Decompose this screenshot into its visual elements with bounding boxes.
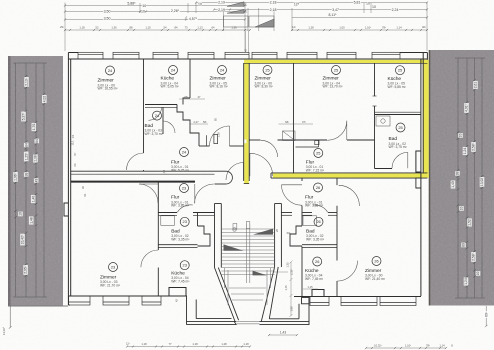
svg-text:1,18: 1,18 xyxy=(192,342,198,346)
room label Flur 26 xyxy=(305,183,324,208)
left neighbour wall band xyxy=(8,56,68,329)
svg-text:26: 26 xyxy=(316,185,320,190)
right neighbour wall band xyxy=(429,50,494,327)
svg-text:1,10¹: 1,10¹ xyxy=(365,26,371,30)
svg-text:25: 25 xyxy=(334,67,338,72)
svg-text:40¹: 40¹ xyxy=(422,25,426,29)
svg-text:1,18: 1,18 xyxy=(162,169,166,175)
svg-text:1,18: 1,18 xyxy=(141,342,147,346)
entrance bay xyxy=(187,267,310,325)
windows top xyxy=(69,52,416,305)
svg-text:1,18: 1,18 xyxy=(243,342,249,346)
chimney hatch symbols xyxy=(224,2,275,27)
svg-text:5,88⁵: 5,88⁵ xyxy=(127,1,136,5)
svg-text:2,26⁵: 2,26⁵ xyxy=(171,9,180,13)
svg-text:WF: 3,85 m²: WF: 3,85 m² xyxy=(171,204,190,208)
svg-text:WF: 21,40 m²: WF: 21,40 m² xyxy=(365,277,386,281)
svg-text:12⁵: 12⁵ xyxy=(126,342,130,346)
room label Bad 25 xyxy=(389,123,408,149)
svg-text:WF: 13,70 m²: WF: 13,70 m² xyxy=(323,85,344,89)
svg-text:78¹: 78¹ xyxy=(382,26,386,30)
svg-text:68¹: 68¹ xyxy=(285,120,289,124)
svg-text:58⁵: 58⁵ xyxy=(203,120,207,124)
svg-text:10: 10 xyxy=(142,4,146,8)
svg-text:1,28: 1,28 xyxy=(221,342,227,346)
svg-text:97¹: 97¹ xyxy=(302,120,306,124)
svg-text:1,36: 1,36 xyxy=(231,26,237,30)
svg-text:2,35¹: 2,35¹ xyxy=(290,269,294,275)
svg-text:13,1: 13,1 xyxy=(71,140,75,146)
room label Zimmer 25 (8,30) xyxy=(255,66,274,89)
svg-text:3,50: 3,50 xyxy=(104,9,111,13)
svg-text:1,15: 1,15 xyxy=(284,285,288,291)
svg-text:WF: 5,75 m²: WF: 5,75 m² xyxy=(171,168,190,172)
svg-text:WF: 3,35 m²: WF: 3,35 m² xyxy=(306,237,325,241)
svg-text:13,06⁵: 13,06⁵ xyxy=(2,327,6,335)
svg-text:WF: 7,45 m²: WF: 7,45 m² xyxy=(171,280,190,284)
svg-text:1,35: 1,35 xyxy=(286,262,290,268)
svg-text:25: 25 xyxy=(398,125,402,130)
svg-text:10: 10 xyxy=(198,2,202,6)
svg-text:29¹: 29¹ xyxy=(60,25,64,29)
room label Bad 24 xyxy=(145,111,164,136)
svg-text:23: 23 xyxy=(183,263,187,268)
svg-text:1,15: 1,15 xyxy=(145,26,151,30)
svg-text:23: 23 xyxy=(182,185,186,190)
svg-text:WF: 3,70 m²: WF: 3,70 m² xyxy=(145,132,164,136)
room label Zimmer 24 (16,55) xyxy=(98,66,119,91)
svg-text:1,88: 1,88 xyxy=(290,306,294,312)
svg-text:10: 10 xyxy=(141,9,145,13)
svg-text:WF: 5,05 m²: WF: 5,05 m² xyxy=(161,85,180,89)
bottom dimension chains xyxy=(127,335,446,348)
svg-text:78¹: 78¹ xyxy=(426,344,430,348)
tiny interior annotations xyxy=(179,99,318,317)
svg-text:WF: 8,16 m²: WF: 8,16 m² xyxy=(210,85,229,89)
svg-text:WF: 3,85 m²: WF: 3,85 m² xyxy=(305,204,324,208)
svg-text:2,18: 2,18 xyxy=(270,8,277,12)
svg-text:2,19: 2,19 xyxy=(218,8,225,12)
svg-text:4,57⁵: 4,57⁵ xyxy=(189,17,198,21)
room label Kueche 25 xyxy=(388,66,407,89)
svg-text:12¹: 12¹ xyxy=(292,25,296,29)
outer walls xyxy=(64,53,428,306)
room label Bad 23 xyxy=(171,217,190,241)
svg-text:1,18: 1,18 xyxy=(79,26,85,30)
svg-text:1,14: 1,14 xyxy=(396,26,402,30)
svg-text:2,18: 2,18 xyxy=(270,0,277,4)
svg-text:1,10¹: 1,10¹ xyxy=(405,344,411,348)
svg-text:1,38: 1,38 xyxy=(217,132,221,138)
room label Flur 24 xyxy=(171,148,190,173)
door arcs xyxy=(127,107,408,281)
svg-text:25: 25 xyxy=(316,150,320,155)
svg-text:1,36: 1,36 xyxy=(111,26,117,30)
yellow highlight apartment 25 xyxy=(244,60,429,184)
svg-text:60¹: 60¹ xyxy=(287,231,291,235)
svg-text:52: 52 xyxy=(96,26,99,30)
room label Flur 23 xyxy=(171,184,190,208)
svg-text:26: 26 xyxy=(316,219,320,224)
room label Kueche 23 xyxy=(171,261,190,284)
svg-text:8,11⁵: 8,11⁵ xyxy=(328,13,337,17)
svg-text:25: 25 xyxy=(398,68,402,73)
room label Zimmer 26 xyxy=(365,257,386,281)
svg-text:10: 10 xyxy=(366,2,370,6)
svg-text:23: 23 xyxy=(111,264,115,269)
svg-text:1,43: 1,43 xyxy=(280,331,286,335)
svg-text:3,50: 3,50 xyxy=(104,16,111,20)
svg-text:26: 26 xyxy=(315,259,319,264)
svg-text:54: 54 xyxy=(164,26,167,30)
room label Bad 26 xyxy=(306,217,325,241)
svg-text:73: 73 xyxy=(185,26,188,30)
svg-text:WF: 7,45 m²: WF: 7,45 m² xyxy=(305,277,324,281)
room label Zimmer 25 (13,70) xyxy=(323,66,344,89)
top dimension lines xyxy=(65,3,427,53)
svg-text:WF: 21,70 m²: WF: 21,70 m² xyxy=(100,283,121,287)
svg-text:5,81: 5,81 xyxy=(354,0,361,4)
room label Zimmer 23 xyxy=(100,263,121,288)
svg-text:12⁵: 12⁵ xyxy=(294,3,300,7)
svg-text:10,32⁵: 10,32⁵ xyxy=(374,344,382,348)
room label Kueche 24 xyxy=(161,66,180,89)
svg-text:WF: 3,75 m²: WF: 3,75 m² xyxy=(389,145,408,149)
svg-text:2,19: 2,19 xyxy=(218,0,225,4)
svg-text:3,47: 3,47 xyxy=(332,8,339,12)
svg-text:1,28: 1,28 xyxy=(308,26,314,30)
staircase xyxy=(221,222,274,306)
svg-text:1,15: 1,15 xyxy=(307,285,313,289)
svg-text:WF: 16,55 m²: WF: 16,55 m² xyxy=(98,87,119,91)
svg-text:77: 77 xyxy=(169,342,172,346)
svg-text:WF: 8,30 m²: WF: 8,30 m² xyxy=(255,85,274,89)
svg-text:10: 10 xyxy=(372,5,376,9)
svg-text:25: 25 xyxy=(265,67,269,72)
svg-text:WF: 7,15 m²: WF: 7,15 m² xyxy=(306,168,325,172)
svg-text:1,00: 1,00 xyxy=(339,26,345,30)
svg-text:1,13: 1,13 xyxy=(197,26,203,30)
svg-text:1,14: 1,14 xyxy=(439,344,445,348)
svg-text:23: 23 xyxy=(183,219,187,224)
room label Zimmer 24 (8,16) xyxy=(210,66,229,89)
room label Kueche 26 xyxy=(305,257,324,281)
svg-text:64: 64 xyxy=(212,26,215,30)
svg-text:26: 26 xyxy=(374,258,378,263)
interior walls xyxy=(71,59,428,297)
svg-text:88: 88 xyxy=(130,26,133,30)
room label Flur 25 xyxy=(306,149,325,173)
svg-text:WF: 5,85 m²: WF: 5,85 m² xyxy=(388,85,407,89)
svg-text:2,27: 2,27 xyxy=(193,120,199,124)
svg-text:2,24: 2,24 xyxy=(392,8,399,12)
bath/kitchen fixtures xyxy=(161,116,390,225)
svg-text:WF: 3,35 m²: WF: 3,35 m² xyxy=(171,237,190,241)
svg-text:84: 84 xyxy=(175,26,178,30)
svg-text:14¹: 14¹ xyxy=(71,134,75,138)
